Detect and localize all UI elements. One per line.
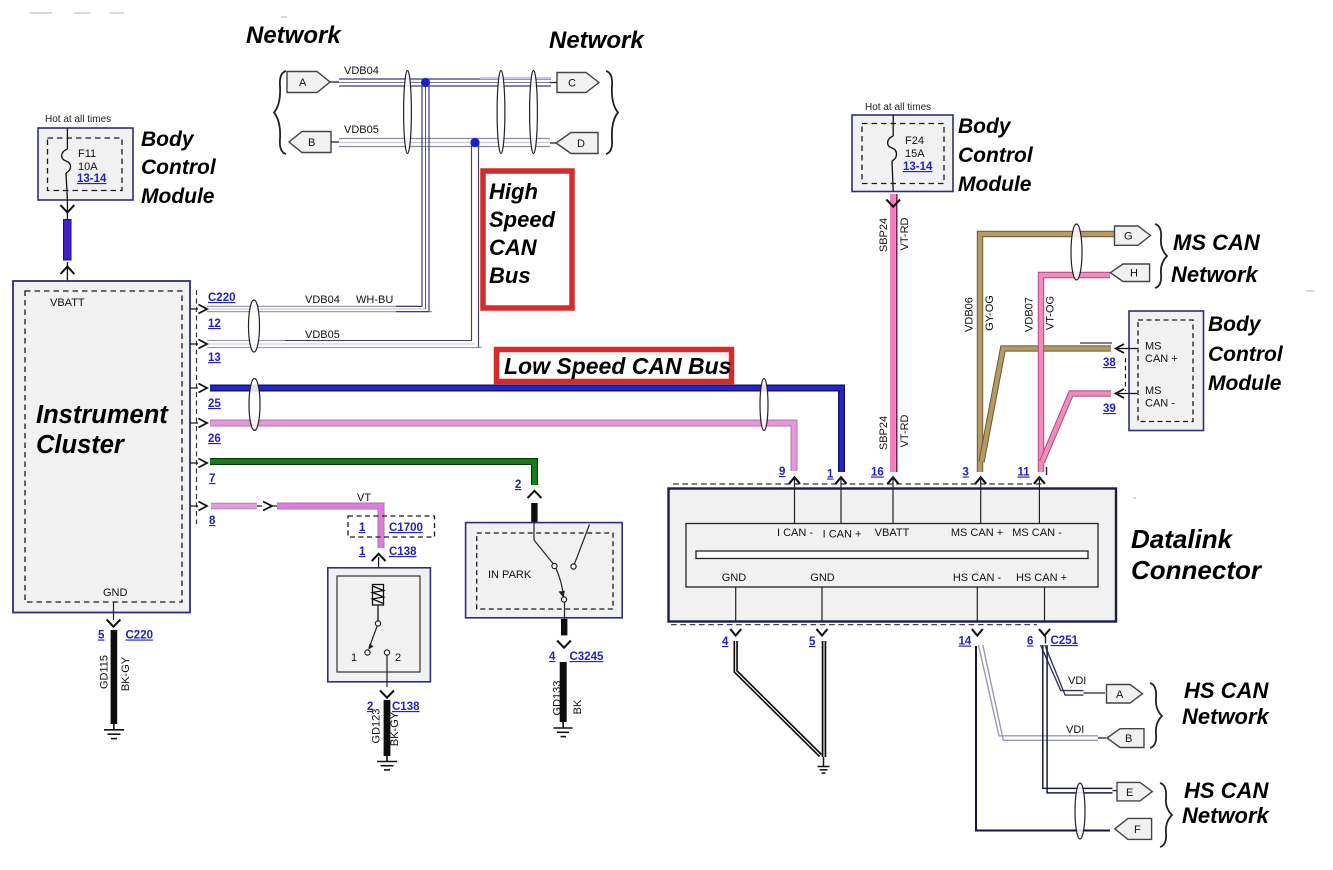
handwritten label: Network (right) xyxy=(549,27,645,54)
dashed connector line above DLC xyxy=(673,483,1042,485)
connector B xyxy=(289,132,339,153)
pin 4 C3245 labels xyxy=(549,651,604,663)
label VBATT xyxy=(50,297,85,309)
twisted pair loop on pins 25/26 wires xyxy=(249,379,260,431)
svg-text:39: 39 xyxy=(1103,403,1116,415)
svg-text:4: 4 xyxy=(722,636,729,648)
brace HS CAN network (E/F) xyxy=(1160,783,1172,847)
arrow down to C138 pin 2 xyxy=(380,691,394,698)
wire: MS CAN + branch from BCM pin 38 xyxy=(982,349,1112,463)
ground symbol below pin 5 xyxy=(818,757,830,773)
wire: green (pin 7 to IN PARK switch) xyxy=(210,462,535,486)
wire: SBP24 VT-RD (F24 down to DLC pin 16) xyxy=(893,194,897,472)
twisted pair loop (bus, mid-right) xyxy=(497,71,505,154)
pin 8 label xyxy=(209,515,216,527)
black ground wire from DLC pin 5 xyxy=(822,641,827,757)
junction dot on VDB04 xyxy=(421,78,430,87)
svg-text:Hot at all times: Hot at all times xyxy=(865,102,931,113)
svg-text:F11: F11 xyxy=(78,148,96,160)
svg-text:F24: F24 xyxy=(905,135,924,147)
svg-text:Control: Control xyxy=(141,156,217,179)
svg-text:Network: Network xyxy=(1182,704,1271,729)
svg-text:HS CAN +: HS CAN + xyxy=(1016,572,1067,584)
svg-text:VT-RD: VT-RD xyxy=(899,217,911,250)
handwritten label: HS CAN Network (lower) xyxy=(1182,778,1271,828)
svg-text:Connector: Connector xyxy=(1131,555,1263,585)
svg-text:C251: C251 xyxy=(1051,635,1079,647)
svg-text:16: 16 xyxy=(871,467,884,479)
pin 25 arrow xyxy=(190,384,207,393)
connector F xyxy=(1115,818,1152,839)
labels GD115 / BK-GY xyxy=(99,655,132,691)
svg-text:CAN: CAN xyxy=(489,235,538,260)
svg-text:Instrument: Instrument xyxy=(36,401,169,429)
wire from terminal 2 down xyxy=(386,655,388,687)
connector A xyxy=(1107,685,1143,704)
svg-text:Datalink: Datalink xyxy=(1131,524,1234,554)
svg-text:Control: Control xyxy=(1208,343,1284,366)
handwritten label: Datalink Connector xyxy=(1131,524,1263,585)
svg-text:BK-GY: BK-GY xyxy=(120,656,132,691)
svg-text:Cluster: Cluster xyxy=(36,431,126,459)
svg-text:MS: MS xyxy=(1145,341,1162,353)
ground symbol GD115 xyxy=(104,724,124,739)
brace HS CAN network (A/B) xyxy=(1150,683,1162,748)
pin 39 label xyxy=(1103,403,1116,415)
ground symbol GD133 xyxy=(554,722,573,737)
svg-text:GND: GND xyxy=(722,572,747,584)
black ground wire GD133 xyxy=(560,662,567,722)
svg-text:1: 1 xyxy=(359,546,366,558)
wire: pair from VDB05 junction down to cluster pin 13 xyxy=(207,144,482,348)
wire into instrument cluster VBATT xyxy=(66,262,68,291)
connector D xyxy=(550,133,598,154)
pin 5 C220 labels xyxy=(98,630,153,642)
svg-text:VDB06: VDB06 xyxy=(964,297,976,332)
svg-text:5: 5 xyxy=(98,630,105,642)
svg-text:BK: BK xyxy=(572,699,584,714)
stub to connector E xyxy=(1113,790,1118,792)
svg-text:B: B xyxy=(308,137,315,149)
pin 39 arrow xyxy=(1116,389,1138,398)
svg-text:C138: C138 xyxy=(389,546,417,558)
arrow up into IN PARK xyxy=(528,491,542,498)
svg-text:38: 38 xyxy=(1103,357,1116,369)
svg-text:8: 8 xyxy=(209,515,216,527)
red callout: Low Speed CAN Bus xyxy=(497,350,732,382)
arrow down above fusible link xyxy=(61,205,75,213)
connector H xyxy=(1110,264,1149,282)
svg-text:I CAN +: I CAN + xyxy=(823,529,862,541)
DLC top pin arrows xyxy=(789,477,1045,484)
wire: violet VT (pin 8, segment 2 to C138) xyxy=(277,506,381,548)
arrow up below fusible link xyxy=(61,267,75,275)
svg-text:GND: GND xyxy=(103,587,128,599)
svg-text:GND: GND xyxy=(810,572,835,584)
label VDB04 (bus) xyxy=(344,65,379,77)
pin 12 arrow xyxy=(190,305,207,314)
pin 38 arrow xyxy=(1116,344,1138,353)
connector B xyxy=(1107,729,1144,748)
svg-text:4: 4 xyxy=(549,651,556,663)
svg-text:13-14: 13-14 xyxy=(903,161,933,173)
stub to connector A xyxy=(1084,692,1106,694)
svg-text:13: 13 xyxy=(208,352,221,364)
connector E xyxy=(1117,782,1152,801)
svg-text:WH-BU: WH-BU xyxy=(356,294,393,306)
svg-text:12: 12 xyxy=(208,318,221,330)
svg-text:15A: 15A xyxy=(905,148,925,160)
svg-text:Network: Network xyxy=(549,27,645,54)
DLC internal pin lines (bottom) xyxy=(736,587,1045,622)
black ground wire GD123 xyxy=(384,700,391,756)
svg-text:5: 5 xyxy=(809,636,816,648)
svg-text:HS CAN: HS CAN xyxy=(1184,678,1269,703)
svg-text:10A: 10A xyxy=(78,161,98,173)
svg-text:1: 1 xyxy=(351,652,357,664)
svg-text:E: E xyxy=(1126,787,1133,799)
DLC top pin labels 9 1 16 3 11 xyxy=(779,466,1047,481)
DLC bottom row labels xyxy=(722,572,1067,584)
twisted pair loop on E/F wires xyxy=(1075,783,1085,839)
wire from F11 box down xyxy=(66,200,68,219)
fusible link bar (blue-violet) xyxy=(64,220,72,261)
svg-text:H: H xyxy=(1130,268,1138,280)
arrow up into C138 xyxy=(372,554,386,584)
svg-text:A: A xyxy=(299,77,307,89)
pin 13 arrow xyxy=(190,340,207,349)
red callout: High Speed CAN Bus xyxy=(483,171,572,308)
svg-text:IN PARK: IN PARK xyxy=(488,569,532,581)
svg-text:7: 7 xyxy=(209,473,215,485)
svg-text:Hot at all times: Hot at all times xyxy=(45,114,111,125)
svg-text:25: 25 xyxy=(208,398,221,410)
svg-text:VBATT: VBATT xyxy=(50,297,85,309)
svg-text:VT: VT xyxy=(357,492,371,504)
pin 7 label xyxy=(209,473,215,485)
svg-text:C: C xyxy=(568,78,576,90)
handwritten label: Body Control Module (right) xyxy=(1208,313,1284,395)
svg-text:VBATT: VBATT xyxy=(875,527,910,539)
svg-text:SBP24: SBP24 xyxy=(878,416,890,450)
brace MS CAN network xyxy=(1155,224,1167,288)
svg-text:D: D xyxy=(577,138,585,150)
svg-text:Body: Body xyxy=(141,128,195,151)
svg-text:VT-RD: VT-RD xyxy=(899,414,911,447)
handwritten label: Instrument Cluster xyxy=(36,401,169,459)
svg-text:CAN +: CAN + xyxy=(1145,353,1178,365)
twisted pair loop on blue/pink near DLC xyxy=(760,379,768,431)
pin 12 labels xyxy=(208,292,236,330)
twisted pair loop (bus, right) xyxy=(530,71,538,154)
connector C xyxy=(550,73,599,93)
label VDB05 on pin 13 wire xyxy=(305,329,340,341)
svg-text:GD133: GD133 xyxy=(552,681,564,716)
svg-text:Bus: Bus xyxy=(489,263,531,288)
fuse F24 value labels xyxy=(903,135,933,173)
DLC bottom pin labels 4 5 14 6 C251 xyxy=(722,635,1079,648)
svg-text:14: 14 xyxy=(959,636,972,648)
svg-text:VT-OG: VT-OG xyxy=(1045,296,1057,330)
handwritten label: MS CAN Network xyxy=(1171,230,1261,287)
pin 1 C138 labels xyxy=(359,546,417,558)
handwritten label: Network (left) xyxy=(246,22,342,49)
inline arrow on pin 8 wire xyxy=(257,502,277,511)
fuse F11 symbol xyxy=(62,128,71,200)
svg-text:VDB05: VDB05 xyxy=(305,329,340,341)
handwritten label: HS CAN Network (upper) xyxy=(1182,678,1271,729)
svg-text:SBP24: SBP24 xyxy=(878,218,890,252)
fuse box F11 (Body Control Module) xyxy=(38,128,133,200)
svg-text:C220: C220 xyxy=(208,292,236,304)
svg-text:2: 2 xyxy=(395,652,401,664)
dashed separator between pins 38/39 xyxy=(1125,358,1127,391)
connector G xyxy=(1115,226,1151,245)
svg-text:3: 3 xyxy=(963,467,969,479)
labels GD133 / BK xyxy=(552,681,585,716)
pin 13 labels xyxy=(208,352,221,364)
pin 2 label (green wire) xyxy=(515,479,521,491)
DLC top row labels xyxy=(777,527,1062,541)
svg-text:GD123: GD123 xyxy=(371,709,383,744)
labels SBP24 / VT-RD (upper) xyxy=(878,217,911,450)
svg-text:G: G xyxy=(1124,231,1133,243)
svg-text:Network: Network xyxy=(1182,803,1271,828)
IN PARK switch internals xyxy=(534,523,590,619)
pin 26 arrow xyxy=(190,419,207,428)
short overlap line above pin38 wire xyxy=(1080,342,1112,344)
label: Hot at all times xyxy=(865,102,931,113)
svg-text:MS: MS xyxy=(1145,385,1162,397)
fuse F11 value labels xyxy=(77,148,107,185)
datalink connector box xyxy=(669,489,1117,622)
decorative edge artifacts xyxy=(30,13,1314,498)
label: Hot at all times xyxy=(45,114,111,125)
svg-text:11: 11 xyxy=(1018,467,1031,479)
coil / resistor symbol xyxy=(373,585,384,622)
label IN PARK xyxy=(488,569,532,581)
svg-text:I CAN -: I CAN - xyxy=(777,527,813,539)
DLC top pin stub lines xyxy=(795,477,1040,490)
label VDI (A wire) xyxy=(1068,675,1086,687)
wire: VDB07 pink (H to DLC pin 11) xyxy=(1041,275,1110,472)
svg-text:Low Speed CAN Bus: Low Speed CAN Bus xyxy=(504,353,731,379)
DLC internal pin lines (top) xyxy=(795,490,1040,524)
svg-text:C3245: C3245 xyxy=(570,651,604,663)
connector A xyxy=(287,72,339,93)
ground symbol GD123 xyxy=(377,756,397,770)
svg-text:2: 2 xyxy=(515,479,521,491)
GND pin wire and arrow xyxy=(113,602,115,620)
wire: HS pair from VDB04 junction down to cluster pin 12 xyxy=(207,86,432,312)
svg-text:9: 9 xyxy=(779,466,785,478)
brace left of A/B xyxy=(274,71,286,154)
wire: HS CAN + striped pair (pin 6 to A, VDI) xyxy=(1041,645,1084,695)
svg-text:VDB05: VDB05 xyxy=(344,124,379,136)
BCM box xyxy=(1129,311,1204,431)
black ground wire from DLC pin 4 xyxy=(736,641,821,756)
pin 26 label xyxy=(208,433,221,445)
svg-text:Module: Module xyxy=(958,173,1032,196)
svg-text:Body: Body xyxy=(1208,313,1262,336)
IN PARK box xyxy=(466,523,623,618)
pin 7 arrow xyxy=(190,459,207,468)
twisted pair loop on G/H wires xyxy=(1071,224,1082,280)
pin 8 arrow xyxy=(190,502,207,511)
svg-text:CAN -: CAN - xyxy=(1145,398,1175,410)
label VDI (B wire) xyxy=(1066,724,1084,736)
svg-text:1: 1 xyxy=(359,522,366,534)
black wire segment below IN PARK xyxy=(561,619,567,636)
svg-text:MS CAN -: MS CAN - xyxy=(1012,527,1062,539)
arrow down from GND xyxy=(107,620,121,627)
pin 2 C138 labels xyxy=(367,701,420,713)
switch contacts and blade xyxy=(365,621,390,655)
black ground wire GD115 xyxy=(111,630,118,724)
label VDB05 (bus) xyxy=(344,124,379,136)
handwritten label: Body Control Module (left) xyxy=(141,128,217,208)
svg-text:C220: C220 xyxy=(126,630,154,642)
wire: HS CAN + navy pair (pin 6 down to E) xyxy=(1043,645,1113,793)
svg-text:6: 6 xyxy=(1027,636,1033,648)
svg-text:C1700: C1700 xyxy=(389,522,423,534)
svg-text:VDB04: VDB04 xyxy=(305,294,340,306)
twisted pair loop on pins 12/13 wires xyxy=(249,300,260,352)
dashed connector line below DLC xyxy=(671,624,1037,626)
connector C220 dashed boundary line xyxy=(196,290,198,524)
svg-text:VDB04: VDB04 xyxy=(344,65,379,77)
svg-text:Module: Module xyxy=(141,185,215,208)
rotated labels VDB06 / GY-OG / VDB07 / VT-OG xyxy=(964,295,1057,332)
fuse box F24 xyxy=(852,115,953,192)
terminal labels 1 / 2 xyxy=(351,652,401,664)
svg-text:HS CAN -: HS CAN - xyxy=(953,572,1002,584)
wire: VDB06 tan (G to DLC pin 3) xyxy=(980,234,1114,472)
DLC bottom pin arrows xyxy=(730,629,1050,636)
svg-text:B: B xyxy=(1125,733,1132,745)
svg-text:HS CAN: HS CAN xyxy=(1184,778,1269,803)
fuse F24 symbol xyxy=(888,115,897,192)
wire: low speed CAN pink VT (pin 26 to DLC pin 9) xyxy=(210,423,794,471)
arrow down to C3245 xyxy=(557,641,571,648)
svg-text:26: 26 xyxy=(208,433,221,445)
svg-text:VDI: VDI xyxy=(1068,675,1086,687)
svg-text:Control: Control xyxy=(958,144,1034,167)
svg-text:MS CAN: MS CAN xyxy=(1173,230,1261,255)
svg-text:F: F xyxy=(1134,824,1141,836)
svg-text:Body: Body xyxy=(958,115,1012,138)
junction dot on VDB05 xyxy=(470,138,479,147)
label GND xyxy=(103,587,128,599)
pin 25 label xyxy=(208,398,221,410)
svg-text:MS CAN +: MS CAN + xyxy=(951,527,1003,539)
svg-text:GY-OG: GY-OG xyxy=(984,295,996,331)
wire: HS CAN - dark (pin 14 to F) xyxy=(976,646,1110,831)
arrow down below F24 xyxy=(886,200,900,207)
labels GD123 / BK-GY xyxy=(371,709,402,747)
svg-text:BK-GY: BK-GY xyxy=(389,711,401,746)
labels MS CAN + / MS CAN - xyxy=(1145,341,1178,410)
svg-text:Network: Network xyxy=(246,22,342,49)
label VT xyxy=(357,492,371,504)
svg-text:Network: Network xyxy=(1171,262,1260,287)
svg-text:C138: C138 xyxy=(392,701,420,713)
svg-text:High: High xyxy=(489,179,538,204)
svg-text:1: 1 xyxy=(827,469,834,481)
wire: low speed CAN blue (pin 25 to DLC pin 1) xyxy=(210,388,842,472)
handwritten label: Body Control Module (top right) xyxy=(958,115,1034,196)
svg-text:VDB07: VDB07 xyxy=(1024,297,1036,332)
stub to connector B xyxy=(1098,737,1106,739)
connector C1700 dashed box xyxy=(348,516,435,537)
wire: HS CAN - white pair (pin 14 to B, VDI) xyxy=(979,645,1099,740)
svg-text:Speed: Speed xyxy=(489,207,556,232)
wire VDB05 bus xyxy=(339,139,550,147)
svg-text:VDI: VDI xyxy=(1066,724,1084,736)
wire VDB04 bus (striped) xyxy=(339,78,551,86)
svg-text:GD115: GD115 xyxy=(99,655,111,689)
svg-text:Module: Module xyxy=(1208,372,1282,395)
svg-text:A: A xyxy=(1116,689,1124,701)
wire: violet VT (pin 8, segment 1) xyxy=(211,503,257,509)
label VDB04 / WH-BU on pin 12 wire xyxy=(305,294,393,306)
wire: MS CAN - branch from BCM pin 39 xyxy=(1042,394,1111,463)
pin 38 label xyxy=(1103,357,1116,369)
twisted pair loop (bus, left) xyxy=(404,71,412,154)
brace right of C/D xyxy=(606,71,618,154)
switch/relay box xyxy=(328,568,431,682)
instrument cluster box xyxy=(13,281,190,613)
svg-text:13-14: 13-14 xyxy=(77,173,107,185)
black wire segment into IN PARK xyxy=(531,503,537,523)
